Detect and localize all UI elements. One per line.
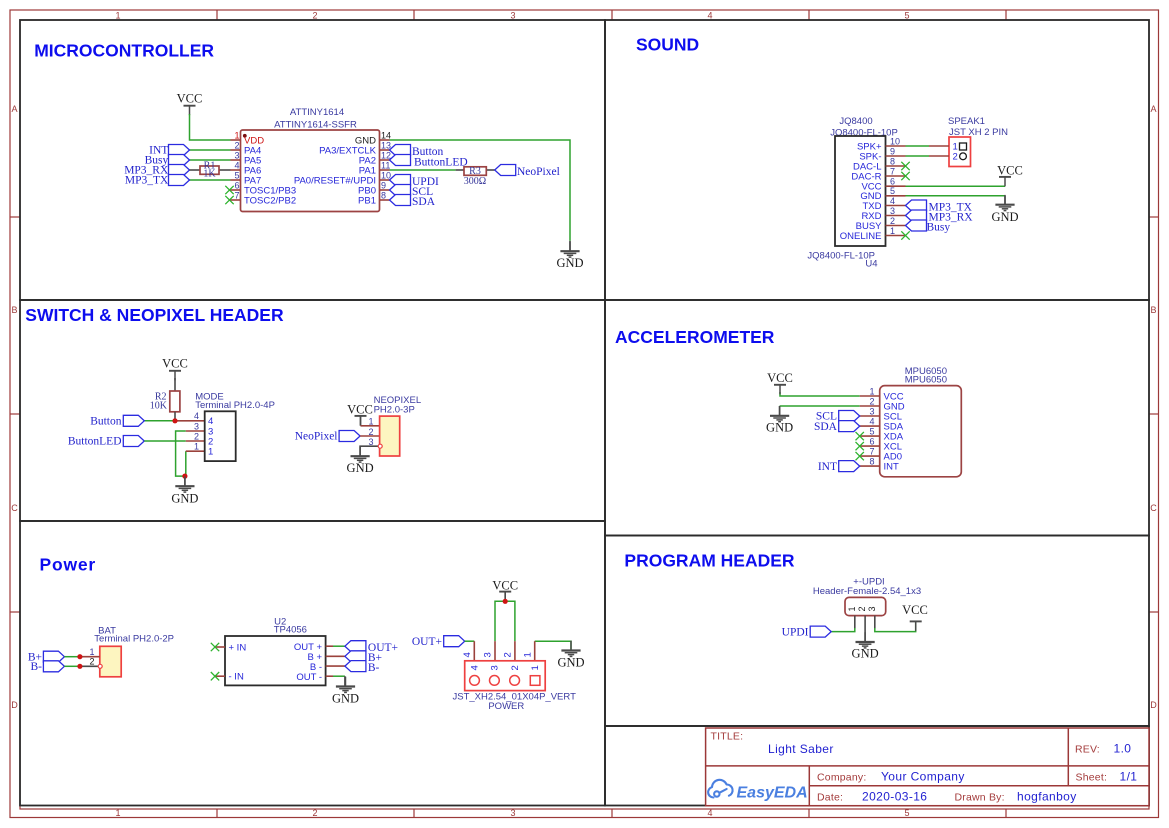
junction dot VCC — [503, 599, 508, 604]
svg-text:SDA: SDA — [412, 196, 436, 208]
svg-text:1/1: 1/1 — [1120, 769, 1138, 783]
net flag MP3_TX — [906, 200, 927, 211]
junction dot B+ — [77, 654, 82, 659]
net flag NeoPixel — [495, 165, 516, 176]
svg-text:1: 1 — [530, 665, 541, 670]
svg-text:3: 3 — [194, 421, 199, 431]
no-connect XDA — [856, 432, 864, 440]
wire B- to BAT pin2 — [64, 665, 78, 667]
no-connect pin7 — [225, 196, 233, 204]
power flag VCC (NEOPIXEL) — [355, 416, 367, 426]
net flag SDA — [390, 195, 411, 206]
svg-text:2: 2 — [234, 140, 239, 150]
wire pin5 MP3_TX — [190, 179, 231, 181]
NEOPIXEL body — [380, 416, 400, 456]
svg-text:Button: Button — [90, 416, 122, 428]
net flag B- (U2) — [345, 661, 366, 672]
wire JST pin1 to GND — [535, 641, 571, 650]
section box bottom right — [605, 726, 1149, 806]
svg-text:C: C — [11, 503, 18, 513]
svg-text:4: 4 — [707, 808, 712, 818]
net flag INT — [169, 145, 190, 156]
svg-text:5: 5 — [869, 426, 874, 436]
svg-text:PH2.0-3P: PH2.0-3P — [374, 404, 415, 415]
svg-text:3: 3 — [510, 808, 515, 818]
svg-text:Your Company: Your Company — [881, 769, 965, 783]
svg-text:VCC: VCC — [767, 371, 793, 385]
svg-text:5: 5 — [234, 170, 239, 180]
section box MICROCONTROLLER — [20, 20, 605, 300]
svg-text:PROGRAM HEADER: PROGRAM HEADER — [624, 551, 795, 571]
svg-text:A: A — [1150, 104, 1156, 114]
svg-text:GND: GND — [557, 656, 584, 670]
svg-text:1: 1 — [234, 130, 239, 140]
svg-text:6: 6 — [869, 436, 874, 446]
wire VCC to pin1 — [190, 114, 231, 140]
svg-text:2: 2 — [89, 657, 94, 667]
svg-text:- IN: - IN — [229, 672, 244, 683]
U3 left pin stubs — [860, 396, 880, 466]
svg-text:2: 2 — [368, 427, 373, 437]
svg-text:A: A — [11, 104, 17, 114]
svg-text:4: 4 — [869, 416, 874, 426]
svg-text:MICROCONTROLLER: MICROCONTROLLER — [34, 41, 214, 61]
svg-text:GND: GND — [171, 492, 198, 506]
svg-text:7: 7 — [234, 190, 239, 200]
svg-text:VCC: VCC — [347, 403, 373, 417]
svg-text:VCC: VCC — [492, 578, 518, 592]
svg-text:D: D — [1150, 700, 1157, 710]
junction dot (GND) — [182, 474, 187, 479]
svg-text:13: 13 — [381, 140, 391, 150]
svg-text:ButtonLED: ButtonLED — [68, 436, 122, 448]
svg-text:2: 2 — [953, 152, 958, 163]
no-connect pin6 — [225, 186, 233, 194]
svg-text:4: 4 — [462, 652, 473, 657]
svg-text:REV:: REV: — [1075, 744, 1100, 756]
net flag OUT+ (U2) — [345, 641, 366, 652]
power flag VCC (U4) — [999, 177, 1011, 187]
net flag INT — [839, 461, 860, 472]
svg-text:4: 4 — [890, 196, 895, 206]
net flag MP3_RX — [906, 210, 927, 221]
power flag VCC (header pin3) — [910, 621, 922, 631]
wire ButtonLED to pin2 — [144, 440, 186, 442]
wire pin3 to VCC — [875, 622, 916, 632]
U1 right pin stubs — [380, 140, 390, 200]
svg-text:9: 9 — [890, 146, 895, 156]
svg-text:B-: B- — [368, 662, 380, 674]
svg-text:MPU6050: MPU6050 — [905, 374, 947, 385]
svg-text:14: 14 — [381, 130, 391, 140]
net flag Button — [390, 145, 411, 156]
wire VCC to JST pins 2,3 — [495, 601, 515, 641]
wire pin2 INT — [190, 149, 231, 151]
no-connect DAC-L — [901, 162, 909, 170]
wire pin3 to GND (NEOPIXEL) — [360, 446, 380, 456]
svg-text:INT: INT — [884, 461, 900, 472]
svg-text:1: 1 — [847, 606, 857, 611]
svg-text:6: 6 — [890, 177, 895, 187]
junction dot (pin4/R2/Button) — [172, 418, 177, 423]
no-connect DAC-R — [901, 172, 909, 180]
ground GND (U3 pin2) — [779, 406, 781, 416]
svg-text:2: 2 — [857, 606, 867, 611]
U1 left pin stubs — [231, 140, 241, 200]
svg-text:C: C — [1150, 503, 1157, 513]
svg-text:3: 3 — [869, 406, 874, 416]
wire UPDI to pin1 — [831, 628, 855, 632]
svg-text:GND: GND — [332, 691, 359, 705]
svg-text:POWER: POWER — [488, 701, 524, 712]
net flag UPDI — [390, 175, 411, 186]
wire OUT+ — [333, 645, 345, 647]
net flag ButtonLED — [390, 155, 411, 166]
svg-text:VCC: VCC — [162, 357, 188, 371]
svg-text:3: 3 — [483, 652, 494, 657]
net flag Button — [123, 415, 144, 426]
wire GND pin5 — [906, 195, 1006, 197]
svg-text:B-: B- — [31, 661, 43, 673]
svg-text:U4: U4 — [865, 259, 877, 270]
svg-text:B: B — [1150, 305, 1156, 315]
svg-text:+ IN: + IN — [229, 642, 247, 653]
net flag B- (BAT) — [43, 661, 64, 672]
ground GND (U1 pin14 net) — [569, 241, 571, 251]
svg-text:10: 10 — [381, 170, 391, 180]
junction dot B- — [77, 664, 82, 669]
svg-text:NeoPixel: NeoPixel — [517, 166, 560, 178]
wire B+ to BAT pin1 — [64, 656, 78, 658]
section box SOUND — [605, 20, 1149, 300]
svg-text:ACCELEROMETER: ACCELEROMETER — [615, 327, 775, 347]
svg-text:NeoPixel: NeoPixel — [295, 431, 338, 443]
wire pin14 GND net — [390, 140, 571, 241]
svg-text:SWITCH & NEOPIXEL HEADER: SWITCH & NEOPIXEL HEADER — [25, 305, 284, 325]
svg-text:MP3_TX: MP3_TX — [125, 175, 169, 187]
svg-text:Terminal PH2.0-2P: Terminal PH2.0-2P — [94, 634, 174, 645]
wire pin1 to GND — [185, 451, 187, 476]
ground GND (U2 OUT-) — [336, 677, 355, 693]
svg-text:TOSC2/PB2: TOSC2/PB2 — [244, 195, 296, 206]
net flag ButtonLED — [123, 436, 144, 447]
svg-text:GND: GND — [347, 461, 374, 475]
connector JST_XH2.54_01X04P_VERT POWER body — [465, 661, 546, 691]
svg-text:4: 4 — [194, 411, 199, 421]
wire pin11 to R3 — [390, 169, 456, 171]
net flag MP3_TX — [169, 175, 190, 186]
no-connect XCL — [856, 442, 864, 450]
svg-text:TP4056: TP4056 — [274, 625, 307, 636]
svg-text:1: 1 — [208, 447, 213, 458]
svg-text:2: 2 — [312, 808, 317, 818]
svg-text:Light Saber: Light Saber — [768, 742, 834, 756]
svg-text:2: 2 — [890, 216, 895, 226]
header J? body — [845, 597, 886, 615]
ground GND (header pin2) — [856, 632, 875, 648]
svg-text:1: 1 — [522, 652, 533, 657]
net flag Busy — [906, 220, 927, 231]
svg-text:hogfanboy: hogfanboy — [1017, 789, 1077, 803]
wire OUT- to GND — [333, 675, 345, 677]
svg-text:2: 2 — [503, 652, 514, 657]
net flag MP3_RX — [169, 165, 190, 176]
no-connect AD0 — [856, 452, 864, 460]
svg-text:ATTINY1614: ATTINY1614 — [290, 107, 344, 118]
svg-text:3: 3 — [490, 665, 501, 670]
power flag VCC (U1) — [184, 106, 196, 116]
svg-text:B: B — [11, 305, 17, 315]
svg-text:1: 1 — [115, 808, 120, 818]
svg-text:ONELINE: ONELINE — [840, 231, 882, 242]
no-connect +IN — [211, 643, 219, 651]
U2 right pin stubs — [326, 645, 333, 647]
net flag SDA — [839, 421, 860, 432]
svg-text:5: 5 — [904, 808, 909, 818]
net flag UPDI — [810, 626, 831, 637]
svg-text:2: 2 — [312, 11, 317, 21]
wire SPK+ — [906, 145, 930, 147]
svg-text:1: 1 — [869, 386, 874, 396]
svg-text:8: 8 — [869, 456, 874, 466]
net flag SCL — [390, 185, 411, 196]
svg-text:2: 2 — [869, 396, 874, 406]
net flag B+ (U2) — [345, 651, 366, 662]
svg-text:Terminal PH2.0-4P: Terminal PH2.0-4P — [195, 400, 275, 411]
net flag OUT+ (JST) — [444, 636, 465, 647]
svg-text:4: 4 — [707, 11, 712, 21]
svg-text:INT: INT — [818, 461, 837, 473]
net flag B+ (BAT) — [43, 651, 64, 662]
svg-text:4: 4 — [234, 160, 239, 170]
svg-text:VCC: VCC — [902, 603, 928, 617]
svg-text:Company:: Company: — [817, 771, 866, 783]
svg-text:Date:: Date: — [817, 791, 843, 803]
svg-text:VCC: VCC — [177, 92, 203, 106]
title block frame — [706, 728, 1149, 806]
svg-text:SOUND: SOUND — [636, 35, 699, 55]
svg-text:7: 7 — [869, 446, 874, 456]
svg-text:GND: GND — [852, 646, 879, 660]
svg-text:EasyEDA: EasyEDA — [737, 785, 808, 802]
svg-text:3: 3 — [890, 206, 895, 216]
wire OUT+ to JST pin4 — [465, 640, 475, 642]
svg-text:SPEAK1: SPEAK1 — [948, 116, 985, 127]
svg-text:4: 4 — [470, 665, 481, 670]
svg-text:1: 1 — [89, 647, 94, 657]
ground GND (MODE) — [184, 477, 186, 486]
svg-text:D: D — [11, 700, 18, 710]
section box PROGRAM HEADER — [605, 536, 1149, 727]
ground GND (U4 pin5) — [1004, 196, 1006, 205]
svg-text:1: 1 — [890, 226, 895, 236]
svg-text:10K: 10K — [150, 400, 168, 411]
svg-text:GND: GND — [991, 210, 1018, 224]
power flag VCC (U3) — [774, 385, 786, 395]
wire GND pin2 — [780, 405, 860, 407]
wire dot to pin4 — [175, 420, 205, 422]
svg-text:OUT -: OUT - — [296, 672, 322, 683]
svg-text:3: 3 — [368, 437, 373, 447]
EasyEDA logo — [708, 780, 732, 798]
section box SWITCH — [20, 300, 605, 521]
svg-text:300Ω: 300Ω — [464, 176, 486, 187]
BAT unconnected pin circle — [98, 664, 102, 668]
wire VCC pin6 — [906, 185, 1006, 187]
svg-text:1: 1 — [194, 442, 199, 452]
no-connect ONELINE — [901, 231, 909, 239]
ground GND (JST pin1) — [561, 641, 580, 657]
svg-text:GND: GND — [556, 256, 583, 270]
wire SPK- — [906, 155, 930, 157]
svg-text:8: 8 — [890, 156, 895, 166]
svg-text:TITLE:: TITLE: — [711, 731, 744, 743]
svg-text:2020-03-16: 2020-03-16 — [862, 789, 927, 803]
wire pin3 to GND — [176, 431, 186, 476]
svg-text:3: 3 — [234, 150, 239, 160]
U4 right pin stubs — [886, 146, 906, 236]
header pin stubs — [854, 616, 856, 629]
svg-text:UPDI: UPDI — [782, 626, 809, 638]
resistor R3 — [456, 169, 464, 171]
svg-text:VCC: VCC — [997, 163, 1023, 177]
svg-text:SDA: SDA — [814, 421, 838, 433]
svg-text:GND: GND — [766, 420, 793, 434]
svg-text:12: 12 — [381, 150, 391, 160]
svg-text:Header-Female-2.54_1x3: Header-Female-2.54_1x3 — [813, 586, 921, 597]
svg-text:JQ8400: JQ8400 — [839, 116, 872, 127]
wire pin3 Busy — [190, 159, 231, 161]
svg-text:1: 1 — [115, 11, 120, 21]
svg-text:8: 8 — [381, 190, 386, 200]
wire Button net — [144, 420, 174, 422]
svg-text:2: 2 — [510, 665, 521, 670]
power flag VCC (JST) — [499, 592, 511, 602]
svg-text:3: 3 — [867, 606, 877, 611]
svg-text:5: 5 — [904, 11, 909, 21]
resistor R1 — [190, 169, 201, 171]
section box ACCELEROMETER — [605, 300, 1149, 536]
svg-text:3: 3 — [510, 11, 515, 21]
net flag NeoPixel — [339, 431, 360, 442]
section box POWER — [20, 521, 605, 806]
svg-text:Sheet:: Sheet: — [1076, 771, 1108, 783]
power flag VCC (R2) — [169, 371, 181, 381]
svg-text:Power: Power — [40, 555, 97, 575]
svg-text:7: 7 — [890, 166, 895, 176]
net flag SCL — [839, 411, 860, 422]
svg-text:OUT+: OUT+ — [412, 636, 442, 648]
svg-text:ATTINY1614-SSFR: ATTINY1614-SSFR — [274, 120, 357, 131]
svg-text:9: 9 — [381, 180, 386, 190]
wire VCC pin1 — [780, 392, 860, 396]
svg-text:1K: 1K — [203, 168, 216, 179]
svg-text:Drawn By:: Drawn By: — [955, 791, 1005, 803]
svg-text:10: 10 — [890, 136, 900, 146]
svg-text:5: 5 — [890, 186, 895, 196]
svg-text:ButtonLED: ButtonLED — [414, 156, 468, 168]
resistor R2 — [174, 378, 176, 391]
svg-text:1.0: 1.0 — [1114, 742, 1132, 756]
no-connect -IN — [211, 672, 219, 680]
svg-text:PB1: PB1 — [358, 195, 376, 206]
svg-text:1: 1 — [368, 417, 373, 427]
svg-text:Busy: Busy — [927, 221, 951, 233]
JST pin stubs — [473, 641, 475, 661]
net flag Busy — [169, 155, 190, 166]
svg-text:11: 11 — [381, 160, 390, 170]
U2 left pin stubs — [215, 646, 225, 648]
svg-text:2: 2 — [194, 431, 199, 441]
svg-text:6: 6 — [234, 180, 239, 190]
